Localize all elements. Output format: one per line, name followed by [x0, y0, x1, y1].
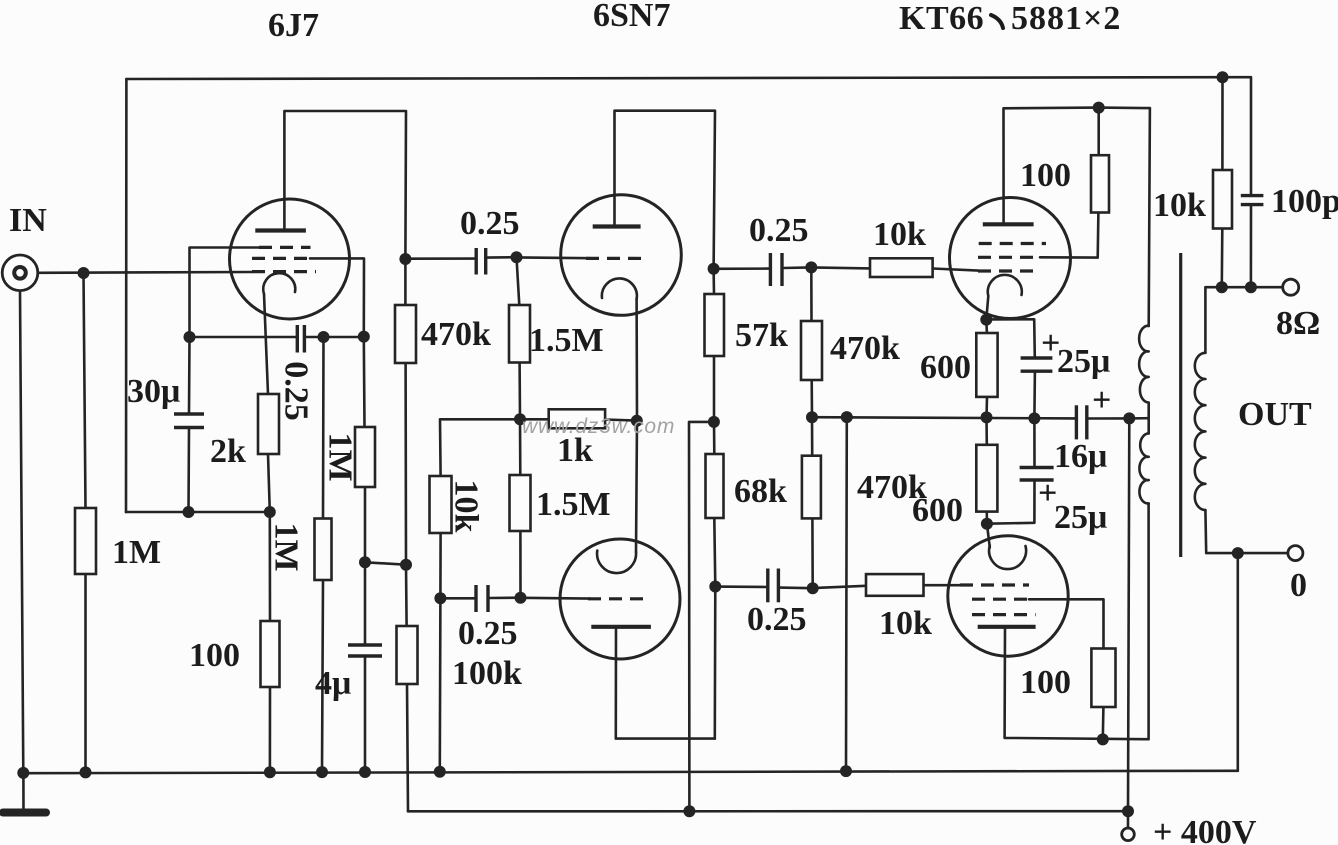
- node V4 cathode: [980, 314, 992, 326]
- wire junction down to resistor 1.5M upper: [517, 257, 520, 305]
- tube V1 plate: [255, 228, 306, 232]
- wire rail node down to +400V bus: [1128, 418, 1129, 811]
- node C4 input: [434, 592, 446, 604]
- wire IN signal to V1 grid: [38, 271, 252, 274]
- capacitor C1 0.25 cathode: [297, 325, 304, 353]
- wire cathode node y337 right segment: [306, 336, 364, 339]
- resistor 100 screen V4: [1091, 155, 1109, 212]
- ground: [22, 773, 25, 812]
- transformer secondary: [1195, 353, 1206, 510]
- wire +400V terminal lead: [1127, 811, 1130, 828]
- wire V4 cathode lead: [986, 296, 988, 320]
- wire resistor 1.5M upper to 1k node: [518, 363, 521, 420]
- capacitor C3 0.25 coupling V2-V4: [770, 253, 782, 286]
- node ground bus rail: [840, 765, 852, 777]
- node V1 cathode net mid: [318, 331, 330, 343]
- wire node y586 down to V3 plate wire: [713, 587, 716, 739]
- wire cathode node y337 left segment: [190, 336, 297, 339]
- wire resistor 10k vertical to coupling node y598: [439, 533, 442, 598]
- tube V1 6J7 envelope: [230, 199, 350, 319]
- resistor 10k feedback: [1213, 170, 1232, 229]
- wire input junction down to resistor 1M: [84, 273, 86, 508]
- wire plate junction down to resistor 470k: [404, 259, 407, 305]
- wire node y422 left and down to +400V bus: [689, 422, 714, 811]
- svg-text:100k: 100k: [452, 655, 522, 692]
- svg-text:100p: 100p: [1271, 183, 1338, 220]
- svg-text:KT66: KT66: [899, 0, 984, 37]
- svg-text:30μ: 30μ: [127, 373, 180, 410]
- tube V1 suppressor grid: [252, 257, 310, 260]
- wire top bus left drop to node y512: [125, 79, 128, 512]
- node decoupling left: [359, 556, 371, 568]
- svg-text:8Ω: 8Ω: [1276, 305, 1320, 342]
- wire resistor 1k right lead: [605, 420, 637, 421]
- resistor 1M input: [75, 508, 96, 574]
- svg-text:0.25: 0.25: [747, 601, 807, 638]
- node input junction: [78, 267, 90, 279]
- node rail 600: [981, 411, 993, 423]
- wire resistor 470k lower to node y588: [811, 518, 814, 588]
- wire rail y417 to resistor 600 lower: [985, 417, 988, 444]
- resistor 1k: [549, 409, 605, 428]
- svg-text:10k: 10k: [873, 216, 926, 253]
- wire capacitor 100p to node y287: [1250, 205, 1253, 288]
- wire V1 suppressor to node: [310, 258, 364, 336]
- wire V3 plate down and right: [616, 627, 715, 739]
- tube V4 control grid: [978, 269, 1040, 272]
- tube V2 plate: [593, 224, 641, 228]
- resistor 470k lower: [802, 456, 821, 519]
- tube V2 cathode: [602, 278, 637, 299]
- resistor 1.5M lower: [510, 475, 531, 531]
- node ground bus left: [17, 767, 29, 779]
- wire 0 node down to ground bus: [1237, 553, 1240, 771]
- node rail 470k: [806, 411, 818, 423]
- wire y598 right of capacitor 0.25: [490, 596, 521, 599]
- wire resistor 1.5M lower to coupling node y598: [519, 531, 522, 598]
- wire resistor 2k to node y512: [268, 454, 270, 512]
- capacitor 100p: [1241, 196, 1264, 205]
- svg-text:25μ: 25μ: [1057, 343, 1110, 380]
- tube V2 6SN7a envelope: [561, 195, 682, 316]
- tube V4 cathode: [988, 275, 1022, 296]
- tube V1 control grid: [252, 270, 316, 273]
- tube V2 grid: [586, 257, 648, 260]
- svg-text:10k: 10k: [448, 480, 485, 533]
- wire node y337 down to resistor 1M A: [322, 337, 325, 519]
- wire node y512 horizontal: [126, 511, 270, 514]
- svg-text:100: 100: [189, 637, 240, 674]
- wire rail y418 right of capacitor 16u: [1088, 417, 1130, 420]
- wire node B down to resistor 1M B: [362, 337, 365, 427]
- wire node y512 to resistor 100: [268, 512, 271, 621]
- ideographic comma: [991, 15, 1003, 28]
- svg-text:10k: 10k: [1153, 187, 1206, 224]
- wire V5 cathode lead: [987, 524, 990, 548]
- svg-text:0.25: 0.25: [460, 205, 520, 242]
- svg-text:100: 100: [1020, 157, 1071, 194]
- wire grid junction to resistor 10k upper: [811, 267, 870, 268]
- resistor 2k: [258, 394, 279, 454]
- wire rail y417 left of capacitor 16u: [812, 417, 1075, 418]
- tube V3 grid: [588, 597, 646, 600]
- svg-text:16μ: 16μ: [1054, 438, 1107, 475]
- capacitor C4 0.25 coupling V3 grid: [476, 585, 488, 612]
- svg-text:0.25: 0.25: [458, 615, 518, 652]
- svg-text:5881×2: 5881×2: [1011, 0, 1121, 37]
- wire resistor 470k upper to rail y417: [810, 380, 813, 417]
- node V3 grid: [515, 592, 527, 604]
- tube V3 6SN7b envelope: [560, 539, 680, 659]
- svg-text:600: 600: [920, 349, 971, 386]
- wire V1 screen grid feed: [190, 248, 260, 338]
- node V5 cathode: [981, 518, 993, 530]
- wire node y588 to resistor 10k lower: [813, 586, 866, 588]
- node V2 grid: [511, 251, 523, 263]
- wire resistor 1M A to ground bus: [322, 580, 323, 772]
- node V4 grid: [805, 261, 817, 273]
- resistor 470k upper: [801, 321, 822, 380]
- tube V5 cathode: [989, 546, 1026, 570]
- wire top bus to resistor 10k feedback: [1221, 77, 1224, 170]
- node V1 cathode net left: [184, 331, 196, 343]
- wire capacitor 30u top lead: [188, 337, 191, 414]
- wire +400V bus: [408, 810, 1128, 813]
- terminal +400V: [1122, 828, 1135, 841]
- capacitor 4u: [348, 645, 382, 656]
- resistor 1M B: [355, 427, 375, 487]
- terminal IN jack inner: [14, 267, 26, 279]
- svg-text:+ 400V: + 400V: [1153, 814, 1257, 845]
- transformer core: [1179, 253, 1182, 557]
- resistor 100k: [397, 626, 418, 684]
- wire V2 plate junction down to resistor 57k: [712, 269, 715, 294]
- svg-text:+: +: [1092, 382, 1111, 419]
- wire tube V1 plate top loop: [284, 111, 406, 259]
- wire node y562 to capacitor 4u: [364, 562, 367, 645]
- wire resistor 100k to +400V bus: [407, 684, 408, 811]
- node V1 plate: [399, 253, 411, 265]
- node ground bus 4u: [359, 766, 371, 778]
- node 1k left: [514, 413, 526, 425]
- node V2 plate: [708, 263, 720, 275]
- resistor 10k upper: [870, 258, 933, 277]
- wire node y417 down to ground bus: [845, 417, 848, 771]
- svg-text:57k: 57k: [735, 317, 788, 354]
- tube V5 screen grid: [972, 598, 1027, 601]
- svg-text:100: 100: [1020, 664, 1071, 701]
- resistor 470k plate V1: [395, 305, 416, 363]
- resistor 100 cathode V1: [261, 621, 280, 687]
- capacitor 25u lower: [1020, 468, 1054, 481]
- capacitor 30u: [174, 414, 204, 428]
- tube V4 plate: [983, 222, 1034, 226]
- tube V5 beam plates: [972, 613, 1036, 616]
- tube V4 beam plates: [979, 242, 1046, 245]
- wire y587 left of capacitor 0.25 lower: [715, 585, 766, 588]
- resistor 10k vertical: [430, 476, 452, 533]
- wire resistor 600 lower to V5 cathode node: [985, 512, 988, 524]
- wire resistor 10k upper to V4 grid: [933, 269, 978, 271]
- svg-text:0: 0: [1290, 567, 1307, 604]
- wire cathode node to resistor 600 upper: [985, 320, 988, 333]
- node rail ground drop: [841, 411, 853, 423]
- resistor 1M A: [315, 519, 332, 581]
- node 30u bottom: [183, 506, 195, 518]
- svg-text:10k: 10k: [879, 605, 932, 642]
- wire cathode node right to capacitor 25u upper: [986, 319, 1035, 358]
- wire resistor 470k to node y565: [404, 363, 407, 565]
- svg-text:OUT: OUT: [1238, 396, 1312, 433]
- wire coupling y258 left of capacitor 0.25: [405, 257, 475, 260]
- wire coupling node down to ground bus: [438, 598, 441, 772]
- wire V2 plate top loop: [615, 111, 716, 269]
- wire rail y418 to capacitor 25u lower: [1033, 418, 1036, 467]
- wire transformer secondary bottom to 0 terminal: [1205, 510, 1288, 553]
- node 68k bottom: [709, 581, 721, 593]
- svg-text:1M: 1M: [112, 534, 161, 571]
- tube V4 screen grid: [978, 256, 1040, 259]
- resistor 1.5M upper: [509, 305, 530, 363]
- svg-text:25μ: 25μ: [1054, 499, 1107, 536]
- svg-text:600: 600: [912, 492, 963, 529]
- node rail 25u: [1028, 412, 1040, 424]
- wire IN jack shield down to ground bus: [20, 291, 23, 773]
- wire 1k node down to resistor 1.5M lower: [519, 419, 522, 475]
- svg-text:6J7: 6J7: [268, 7, 319, 44]
- terminal IN jack: [2, 255, 38, 291]
- node V5 grid: [807, 582, 819, 594]
- node rail center tap: [1123, 412, 1135, 424]
- svg-text:470k: 470k: [830, 330, 900, 367]
- wire resistor 100 to ground bus: [269, 687, 272, 772]
- node +400V bus mid: [683, 805, 695, 817]
- wire y598 left of capacitor 0.25: [440, 597, 474, 600]
- wire y268 right of capacitor 0.25: [783, 266, 811, 269]
- wire node y287 to 8ohm terminal: [1222, 286, 1284, 289]
- wire resistor 100 lower to plate node: [1102, 707, 1105, 739]
- tube V5 plate: [978, 625, 1036, 629]
- svg-text:68k: 68k: [734, 473, 787, 510]
- node 8ohm mid: [1245, 281, 1257, 293]
- resistor 68k: [706, 454, 724, 518]
- wire 1k node left to resistor 10k vertical: [440, 419, 520, 476]
- wire y268 left of capacitor 0.25: [714, 267, 769, 270]
- svg-text:2k: 2k: [210, 433, 246, 470]
- node V4 plate top: [1093, 102, 1105, 114]
- capacitor C2 0.25 coupling V1-V2: [476, 248, 486, 275]
- transformer primary upper half: [1139, 326, 1149, 434]
- wire resistor 10k feedback to node y287: [1221, 229, 1224, 288]
- capacitor 16u: [1076, 405, 1086, 439]
- svg-text:6SN7: 6SN7: [593, 0, 670, 34]
- wire V4 plate top loop: [1004, 108, 1150, 326]
- wire node y287 left to transformer secondary top: [1205, 287, 1221, 353]
- node ground bus 1M A: [316, 766, 328, 778]
- node ground bus 1M: [80, 766, 92, 778]
- wire resistor 1M B to node y562: [364, 487, 367, 562]
- wire resistor 600 upper to rail y417: [985, 397, 988, 418]
- wire capacitor 25u lower to cathode node: [987, 480, 1035, 524]
- resistor 600 upper: [976, 333, 997, 397]
- wire resistor 68k to node y586: [714, 518, 715, 587]
- wire V5 screen right to resistor 100 lower: [1029, 599, 1104, 648]
- wire ground bus: [23, 771, 1238, 773]
- resistor 57k: [705, 294, 725, 356]
- wire coupling y258 right of capacitor 0.25: [487, 256, 517, 259]
- resistor 100 screen V5: [1091, 649, 1115, 708]
- wire resistor 57k to node y422: [713, 356, 716, 422]
- tube V1 cathode: [263, 273, 295, 294]
- wire top bus: [126, 77, 1222, 79]
- wire top bus corner to capacitor 100p: [1223, 77, 1252, 195]
- svg-text:0.25: 0.25: [749, 212, 809, 249]
- wire node y422 to resistor 68k: [713, 422, 716, 454]
- resistor 600 lower: [976, 445, 997, 512]
- capacitor 25u upper: [1021, 358, 1053, 371]
- node decoupling right: [400, 559, 412, 571]
- wire node y565 to resistor 100k: [405, 565, 408, 626]
- node suppressor net: [358, 331, 370, 343]
- terminal 0: [1288, 546, 1303, 561]
- wire node y417 down to resistor 470k lower: [811, 417, 814, 456]
- wire node top to resistor 100 upper: [1097, 108, 1100, 156]
- wire capacitor 4u to ground bus: [364, 656, 367, 772]
- tube V3 plate: [591, 625, 651, 629]
- wire resistor 100 upper to V4 screen: [1040, 213, 1098, 258]
- node 8ohm left: [1216, 281, 1228, 293]
- tube V5 KT66 lower envelope: [948, 536, 1068, 656]
- svg-text:IN: IN: [9, 202, 47, 239]
- wire junction to V3 grid: [521, 596, 591, 599]
- wire capacitor 30u bottom lead: [187, 428, 190, 513]
- tube V5 control grid: [960, 583, 1029, 586]
- svg-text:1.5M: 1.5M: [536, 486, 611, 523]
- terminal 8 ohm: [1283, 279, 1299, 295]
- node 2k bottom: [264, 506, 276, 518]
- wire junction to V2 grid: [517, 256, 591, 259]
- node 1k right cathode: [631, 415, 643, 427]
- wire resistor 1k left lead: [520, 418, 549, 421]
- wire V1 cathode lead to resistor 2k: [264, 294, 268, 394]
- capacitor C5 0.25 coupling V3-V5: [768, 569, 779, 603]
- wire V5 plate down right and up to transformer: [1005, 503, 1149, 739]
- wire y587 right of capacitor 0.25 lower: [780, 586, 813, 589]
- node +400V bus right: [1122, 805, 1134, 817]
- svg-text:1.5M: 1.5M: [529, 322, 604, 359]
- node V5 plate bottom: [1097, 733, 1109, 745]
- tube V1 screen grid: [259, 246, 311, 249]
- transformer primary lower half: [1139, 433, 1148, 503]
- wire V2 cathode down to 1k node and V3 cathode: [636, 299, 637, 552]
- wire capacitor 25u upper to rail y418: [1033, 371, 1036, 418]
- svg-text:1M: 1M: [322, 432, 359, 481]
- node ground bus C4: [434, 766, 446, 778]
- svg-text:470k: 470k: [421, 316, 491, 353]
- svg-text:www.dz3w.com: www.dz3w.com: [522, 415, 675, 438]
- wire grid junction down to resistor 470k upper: [810, 267, 813, 321]
- svg-text:1M: 1M: [268, 522, 305, 571]
- wire resistor 10k lower to V5 grid: [924, 584, 961, 587]
- node ground bus 100: [264, 766, 276, 778]
- wire node y562 horizontal: [365, 562, 406, 564]
- node 0 terminal: [1232, 547, 1244, 559]
- svg-text:0.25: 0.25: [278, 361, 315, 421]
- node top bus right: [1217, 71, 1229, 83]
- wire resistor 1M to ground bus: [84, 574, 87, 772]
- resistor 10k lower: [866, 574, 924, 596]
- node 57k-68k junction: [708, 416, 720, 428]
- svg-text:4μ: 4μ: [315, 665, 351, 702]
- tube V4 KT66 upper envelope: [950, 198, 1071, 319]
- wire rail node to transformer center tap: [1129, 417, 1148, 420]
- tube V3 cathode: [597, 551, 636, 574]
